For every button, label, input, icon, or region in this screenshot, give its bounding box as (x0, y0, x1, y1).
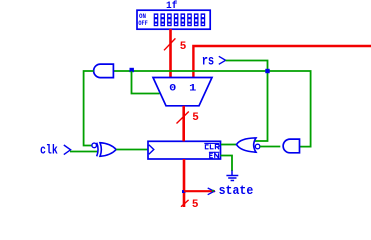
wire G1 output down to xor G2 inverted input (84, 71, 94, 146)
junction at mux select tap (130, 68, 134, 72)
wire register EN to ground (221, 156, 233, 172)
and gate G4 (left-pointing) (283, 139, 299, 153)
dip switch SW1 box (137, 10, 210, 29)
bus width slash (164, 38, 175, 50)
wire: mux select (132, 71, 160, 94)
wire rs: to or-gate G3 top input (226, 61, 268, 142)
bubble on G3 input (255, 144, 260, 149)
junction at rs and feedback line (265, 69, 269, 73)
svg-text:0: 0 (169, 83, 176, 94)
wire G3 bubble to and gate G4 output (260, 146, 280, 148)
bus width slash (177, 112, 189, 124)
bubble on G2 upper input (92, 143, 97, 148)
rs input marker (219, 56, 226, 64)
bus wire: register output down (183, 159, 186, 207)
xor gate G2 (97, 143, 117, 157)
svg-text:5: 5 (180, 41, 187, 53)
and gate G1 (left-pointing) (94, 64, 114, 78)
clk input marker (64, 145, 71, 155)
svg-text:1: 1 (189, 83, 196, 94)
wire net: main horizontal feedback line (114, 71, 311, 147)
wire register CLR to or gate G3 (221, 144, 237, 146)
bus width slash (181, 200, 189, 207)
wire clk to G2 (70, 151, 97, 153)
svg-text:state: state (219, 184, 254, 198)
svg-text:clk: clk (40, 143, 58, 158)
bus wire: right input to mux input 1 (193, 46, 371, 78)
bus wire: dip switch output to mux input 0 (169, 29, 172, 78)
state wire end dot (212, 190, 214, 192)
dip switch SW1 switches (154, 13, 206, 26)
svg-text:rs: rs (202, 53, 215, 69)
mux U1 (153, 78, 212, 106)
bus wire: state stub (184, 190, 215, 192)
state output marker (208, 188, 215, 195)
bus wire: mux output to register (182, 106, 185, 142)
or gate G3 (left-pointing, inverted lower input) (237, 138, 257, 152)
register REG1 (148, 141, 221, 159)
ground (226, 171, 238, 181)
junction at state tap (182, 190, 186, 193)
svg-text:5: 5 (192, 199, 199, 207)
svg-text:5: 5 (192, 112, 199, 124)
svg-text:1f: 1f (166, 0, 177, 12)
wire G2 output to register clock (116, 149, 148, 151)
svg-text:OFF: OFF (138, 20, 147, 27)
